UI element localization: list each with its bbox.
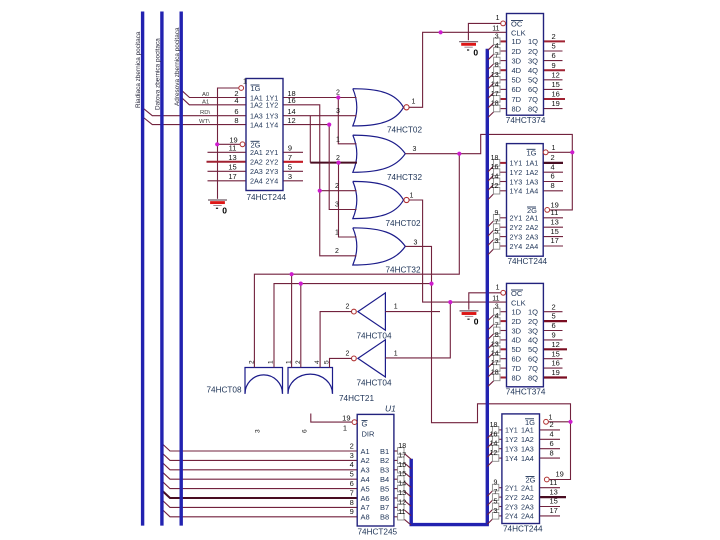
svg-text:4: 4 [495, 313, 499, 320]
junction CLK2 net [448, 300, 452, 304]
nor-gate U2A 74HCT02 [353, 89, 404, 126]
svg-text:2Y1: 2Y1 [505, 484, 518, 493]
wire U1 B4 stub and bus tap [394, 478, 398, 480]
wire U10 A pin stub row 4 [540, 457, 561, 459]
svg-text:12: 12 [552, 340, 560, 349]
svg-text:1A2: 1A2 [250, 101, 263, 110]
wire U1 B8 stub and bus tap [394, 516, 398, 518]
svg-text:5: 5 [552, 42, 556, 51]
svg-text:3: 3 [493, 508, 497, 515]
svg-text:2Q: 2Q [528, 47, 538, 56]
svg-text:19: 19 [552, 99, 560, 108]
svg-text:8: 8 [495, 332, 499, 339]
svg-text:5: 5 [493, 499, 497, 506]
wire U5 pin9 stub [283, 151, 303, 153]
svg-text:3: 3 [414, 240, 418, 247]
svg-text:3: 3 [336, 108, 340, 115]
wire U1 B7 stub and bus tap [394, 506, 398, 508]
svg-text:7: 7 [288, 153, 292, 162]
wire U8 6Q stub [543, 358, 562, 360]
junction U10 enable net [568, 420, 572, 424]
wire data bit D2: bus2 tap to U1 pin A3 [162, 462, 357, 469]
svg-text:2A4: 2A4 [250, 177, 263, 186]
inverter U4B 74HCT04 body [358, 340, 386, 377]
svg-text:7: 7 [350, 488, 354, 497]
wire U7 Y pin stub and bus tap row 7 [500, 236, 507, 238]
svg-text:6: 6 [350, 479, 354, 488]
svg-text:13: 13 [491, 341, 499, 348]
wire U10 Y pin stub and bus tap row 6 [499, 496, 502, 498]
wire U6 7Q stub [544, 98, 566, 100]
junction CLK1 net [439, 30, 443, 34]
wire U8 2Q stub [543, 320, 567, 322]
svg-text:2Q: 2Q [528, 317, 538, 326]
wire U5.1Y1(A0) to U2A NOR input 2, branch to U3A input 1 [283, 97, 357, 99]
svg-text:2A2: 2A2 [521, 493, 534, 502]
svg-text:1Y4: 1Y4 [510, 187, 523, 196]
svg-text:4Q: 4Q [528, 336, 538, 345]
svg-text:8Q: 8Q [528, 104, 538, 113]
svg-text:13: 13 [228, 153, 236, 162]
svg-text:2: 2 [551, 153, 555, 162]
wire U5 pin15 stub [208, 170, 248, 172]
svg-text:B4: B4 [380, 475, 389, 484]
svg-text:3: 3 [495, 304, 499, 311]
svg-text:2Y2: 2Y2 [505, 493, 518, 502]
wire data bit D0: bus2 tap to U1 pin A1 [162, 444, 357, 451]
svg-text:1Y3: 1Y3 [505, 445, 518, 454]
U5 pin19 bubble [240, 142, 245, 147]
wire U3A OR output to U7 74HCT244 1G/2G enables [406, 134, 573, 210]
U1 pin19 bubble [352, 420, 357, 425]
U8 pin1 bubble [501, 290, 506, 295]
wire U8 OC pin1 to ground [469, 293, 501, 310]
wire U5 pin7 stub [283, 161, 303, 163]
svg-text:74HCT04: 74HCT04 [357, 379, 392, 388]
wire data bit D3: bus2 tap to U1 pin A4 [162, 472, 357, 479]
junction RD net at U3A input [336, 161, 340, 165]
wire data bit D4: bus2 tap to U1 pin A5 [162, 481, 357, 488]
register U8 74HCT374 [507, 283, 544, 386]
svg-text:1Q: 1Q [528, 37, 538, 46]
svg-text:1D: 1D [512, 308, 522, 317]
wire U7 Y pin stub and bus tap row 5 [500, 217, 507, 219]
svg-text:B2: B2 [380, 456, 389, 465]
wire U10 Y pin stub and bus tap row 8 [499, 515, 502, 517]
svg-text:7Q: 7Q [528, 95, 538, 104]
svg-text:5: 5 [494, 229, 498, 236]
U7 pin1 bubble [543, 150, 548, 155]
svg-text:1: 1 [343, 424, 347, 433]
svg-text:2: 2 [335, 183, 339, 190]
wire data bit D7: bus2 tap to U1 pin A8 [162, 509, 357, 516]
svg-text:2Y1: 2Y1 [510, 214, 523, 223]
svg-text:2D: 2D [512, 47, 522, 56]
U6 net label boxes [494, 38, 500, 45]
U10 net label boxes [492, 427, 498, 434]
svg-text:9: 9 [288, 144, 292, 153]
svg-text:74HCT08: 74HCT08 [207, 385, 242, 394]
svg-text:2A1: 2A1 [250, 148, 263, 157]
svg-text:74HCT04: 74HCT04 [357, 332, 392, 341]
ground at U6 OC [459, 42, 478, 58]
wire WT net: bus1 tap to U5 pin8 [143, 117, 247, 125]
svg-text:2: 2 [346, 350, 350, 357]
svg-text:16: 16 [491, 164, 499, 171]
svg-text:B3: B3 [380, 466, 389, 475]
wire U1 B5 stub and bus tap [394, 488, 398, 490]
svg-text:16: 16 [552, 359, 560, 368]
svg-text:4: 4 [495, 43, 499, 50]
svg-text:0: 0 [473, 47, 478, 57]
svg-text:11: 11 [492, 26, 499, 33]
svg-text:1: 1 [412, 99, 416, 106]
svg-text:13: 13 [551, 217, 559, 226]
svg-text:1A3: 1A3 [521, 445, 534, 454]
wire U7 Y pin stub and bus tap row 8 [500, 245, 507, 247]
svg-text:3: 3 [335, 202, 339, 209]
buffer U5 74HCT244 [246, 79, 283, 191]
wire U10 Y pin stub and bus tap row 7 [499, 506, 502, 508]
svg-text:2A1: 2A1 [526, 214, 539, 223]
svg-text:2Y3: 2Y3 [505, 502, 518, 511]
svg-text:5: 5 [350, 470, 354, 479]
svg-text:6: 6 [552, 51, 556, 60]
wire U6 7D stub and bus tap [501, 98, 507, 100]
or-gate U3B 74HCT32 [353, 228, 406, 265]
svg-text:1Y1: 1Y1 [510, 159, 523, 168]
wire U7 A pin stub row 2 [543, 171, 563, 173]
svg-text:2Y4: 2Y4 [505, 512, 518, 521]
svg-text:DIR: DIR [362, 429, 376, 438]
wire U8 4D stub and bus tap [501, 339, 507, 341]
svg-text:17: 17 [228, 172, 236, 181]
svg-text:4: 4 [550, 430, 554, 439]
svg-text:A7: A7 [361, 503, 370, 512]
svg-text:Datova zbernica pocitaca: Datova zbernica pocitaca [155, 38, 162, 110]
svg-text:1: 1 [394, 304, 398, 311]
wire U7 A pin stub row 6 [543, 226, 563, 228]
wire U6 8D stub and bus tap [501, 108, 507, 110]
svg-text:12: 12 [491, 183, 499, 190]
svg-text:12: 12 [490, 450, 498, 457]
svg-text:19: 19 [342, 414, 350, 423]
U6 pin1 bubble [501, 21, 506, 26]
svg-text:1Q: 1Q [528, 308, 538, 317]
svg-text:14: 14 [398, 481, 406, 488]
svg-text:6: 6 [552, 321, 556, 330]
svg-text:7D: 7D [512, 95, 522, 104]
svg-text:1D: 1D [512, 37, 522, 46]
or-gate U3A 74HCT32 [353, 135, 406, 172]
svg-text:5D: 5D [512, 76, 522, 85]
wire U7 A pin stub row 8 [543, 245, 563, 247]
wire U7 A pin stub row 1 [543, 162, 563, 164]
svg-text:1Y2: 1Y2 [505, 435, 518, 444]
svg-text:13: 13 [491, 72, 499, 79]
wire U5 1G/2G enables to ground [218, 88, 241, 144]
svg-text:74HCT244: 74HCT244 [247, 193, 287, 202]
svg-text:8: 8 [495, 62, 499, 69]
svg-text:1A2: 1A2 [526, 168, 539, 177]
svg-text:11: 11 [492, 295, 499, 302]
svg-text:74HCT244: 74HCT244 [508, 257, 548, 266]
wire U10 A pin stub row 3 [540, 448, 561, 450]
svg-text:74HCT374: 74HCT374 [506, 116, 546, 125]
svg-text:5Q: 5Q [528, 345, 538, 354]
svg-text:3Q: 3Q [528, 326, 538, 335]
svg-text:3: 3 [350, 451, 354, 460]
svg-text:2: 2 [350, 441, 354, 450]
wire U9B AND output to U1 74HCT245 G enable [311, 414, 352, 423]
svg-text:6: 6 [302, 429, 309, 433]
wire U8 8D stub and bus tap [501, 377, 507, 379]
svg-text:7: 7 [495, 53, 499, 60]
wire U7 Y pin stub and bus tap row 4 [500, 190, 507, 192]
svg-text:11: 11 [550, 478, 558, 487]
svg-text:5Q: 5Q [528, 76, 538, 85]
svg-text:16: 16 [398, 462, 406, 469]
svg-text:2Y2: 2Y2 [510, 223, 523, 232]
svg-text:2D: 2D [512, 317, 522, 326]
wire U1 B3 stub and bus tap [394, 469, 398, 471]
wire U6 5D stub and bus tap [501, 79, 507, 81]
svg-text:8: 8 [550, 448, 554, 457]
svg-text:RD\: RD\ [200, 110, 211, 116]
wire U8 3D stub and bus tap [501, 330, 507, 332]
svg-text:1Y3: 1Y3 [266, 112, 279, 121]
svg-text:1Y4: 1Y4 [266, 120, 279, 129]
svg-text:1A1: 1A1 [526, 159, 539, 168]
wire U6 6D stub and bus tap [501, 88, 507, 90]
wire U7 Y pin stub and bus tap row 1 [500, 162, 507, 164]
wire U5 pin13 stub [207, 161, 248, 163]
svg-text:2Y3: 2Y3 [510, 232, 523, 241]
svg-text:3: 3 [495, 33, 499, 40]
svg-text:B8: B8 [380, 513, 389, 522]
svg-text:0: 0 [222, 206, 227, 216]
U10 pin19 bubble [544, 477, 549, 482]
svg-text:1: 1 [286, 360, 293, 364]
U5 pin1 bubble [239, 86, 244, 91]
svg-text:15: 15 [228, 163, 236, 172]
svg-text:6: 6 [234, 107, 238, 116]
svg-text:1A3: 1A3 [526, 177, 539, 186]
svg-text:B6: B6 [380, 494, 389, 503]
wire U10 A pin stub row 8 [540, 515, 561, 517]
wire U10 Y pin stub and bus tap row 3 [499, 448, 502, 450]
wire U8 1D stub and bus tap [501, 311, 507, 313]
svg-text:4: 4 [350, 460, 354, 469]
svg-text:15: 15 [552, 349, 560, 358]
svg-text:18: 18 [491, 155, 499, 162]
U10 pin1 bubble [544, 419, 549, 424]
svg-text:1Y1: 1Y1 [505, 426, 518, 435]
svg-text:7: 7 [493, 489, 497, 496]
svg-text:14: 14 [490, 441, 498, 448]
svg-text:9: 9 [552, 61, 556, 70]
U7 net label boxes [493, 160, 499, 167]
svg-text:14: 14 [287, 107, 295, 116]
svg-text:16: 16 [490, 431, 498, 438]
wire U6 2D stub and bus tap [501, 50, 507, 52]
ground at U8 OC [460, 311, 479, 327]
svg-text:15: 15 [551, 227, 559, 236]
wire U10 Y pin stub and bus tap row 4 [499, 457, 502, 459]
junction A1 net at U2B input [318, 189, 322, 193]
svg-text:1Y2: 1Y2 [266, 101, 279, 110]
wire U10 A pin stub row 1 [540, 429, 561, 431]
svg-text:2Y4: 2Y4 [266, 177, 279, 186]
wire U10 A pin stub row 2 [540, 438, 561, 440]
svg-text:2A3: 2A3 [526, 232, 539, 241]
svg-text:3: 3 [255, 429, 262, 433]
svg-text:19: 19 [552, 368, 560, 377]
svg-text:4Q: 4Q [528, 66, 538, 75]
svg-text:2: 2 [346, 304, 350, 311]
wire U1 B6 stub and bus tap [394, 497, 398, 499]
svg-text:2: 2 [335, 248, 339, 255]
wire U2B NOR output to U8 74HCT374 CLK pin 11 [409, 200, 507, 302]
wire U8 5D stub and bus tap [501, 348, 507, 350]
svg-text:A5: A5 [361, 484, 370, 493]
wire U10 Y pin stub and bus tap row 5 [499, 487, 502, 489]
wire U6 3D stub and bus tap [501, 60, 507, 62]
wire branch RD to U3A OR input 2 [309, 116, 311, 163]
U7 pin19 bubble [545, 208, 550, 213]
wire U8 4Q stub [543, 339, 562, 341]
svg-text:19: 19 [556, 469, 564, 478]
svg-text:1A3: 1A3 [250, 112, 263, 121]
svg-text:1Y3: 1Y3 [510, 177, 523, 186]
transceiver U1 74HCT245 [357, 414, 394, 526]
wire U6 8Q stub [544, 108, 563, 110]
svg-text:15: 15 [552, 80, 560, 89]
svg-text:13: 13 [398, 490, 406, 497]
wire U7 A pin stub row 4 [543, 190, 563, 192]
ground below U5 [208, 200, 227, 216]
svg-text:6D: 6D [512, 355, 522, 364]
wire U6 2Q stub [544, 50, 563, 52]
svg-text:6: 6 [550, 439, 554, 448]
svg-text:2: 2 [550, 420, 554, 429]
wire U10 Y pin stub and bus tap row 1 [499, 429, 502, 431]
svg-text:2Y2: 2Y2 [266, 158, 279, 167]
wire U8 7D stub and bus tap [501, 367, 507, 369]
wire data bit D6: bus2 tap to U1 pin A7 [162, 500, 357, 507]
wire U3A output branch down to AND gates inputs [254, 154, 459, 368]
svg-text:17: 17 [551, 236, 559, 245]
svg-text:4D: 4D [512, 336, 522, 345]
svg-text:1: 1 [268, 360, 275, 364]
svg-text:2: 2 [552, 302, 556, 311]
wire U4B inverter input [330, 358, 352, 367]
svg-text:2: 2 [249, 360, 256, 364]
svg-text:2Y3: 2Y3 [266, 167, 279, 176]
svg-text:1A4: 1A4 [521, 454, 534, 463]
svg-text:5: 5 [324, 360, 331, 364]
wire U6 5Q stub [544, 79, 563, 81]
svg-text:CLK: CLK [511, 298, 526, 307]
svg-text:A2: A2 [361, 456, 370, 465]
wire U6 3Q stub [544, 60, 563, 62]
svg-text:1: 1 [335, 229, 339, 236]
wire data bit D1: bus2 tap to U1 pin A2 [162, 453, 357, 460]
wire U10 A pin stub row 6 [540, 496, 567, 498]
svg-text:B1: B1 [380, 447, 389, 456]
svg-text:A1: A1 [202, 99, 209, 105]
svg-text:8: 8 [551, 181, 555, 190]
wire U8 7Q stub [543, 367, 562, 369]
svg-text:74HCT32: 74HCT32 [387, 173, 422, 182]
svg-text:1A2: 1A2 [521, 435, 534, 444]
svg-text:2: 2 [295, 360, 302, 364]
svg-text:A0: A0 [202, 92, 210, 98]
svg-text:12: 12 [398, 499, 406, 506]
svg-text:2A3: 2A3 [250, 167, 263, 176]
svg-text:8: 8 [350, 498, 354, 507]
svg-text:8D: 8D [512, 373, 522, 382]
svg-text:15: 15 [398, 471, 406, 478]
svg-text:4D: 4D [512, 66, 522, 75]
junction U3A output net [457, 152, 461, 156]
svg-text:8D: 8D [512, 104, 522, 113]
svg-text:11: 11 [398, 509, 405, 516]
svg-text:3D: 3D [512, 326, 522, 335]
wire RD net: bus1 tap to U5 pin6 [143, 108, 247, 116]
wire U8 8Q stub [543, 376, 567, 378]
svg-text:12: 12 [287, 116, 295, 125]
svg-text:3: 3 [288, 172, 292, 181]
svg-text:WT\: WT\ [199, 119, 210, 125]
svg-text:74HCT21: 74HCT21 [339, 394, 374, 403]
junction U7 enable net [570, 150, 574, 154]
wire U2A NOR output to U6 74HCT374 CLK pin 11 [409, 32, 507, 107]
svg-text:18: 18 [490, 422, 498, 429]
svg-text:9: 9 [350, 507, 354, 516]
svg-text:14: 14 [491, 351, 499, 358]
junction A0 net [336, 95, 340, 99]
svg-text:A8: A8 [361, 513, 370, 522]
svg-text:74HCT244: 74HCT244 [503, 525, 543, 534]
wire U6 4Q stub [544, 69, 566, 71]
and-gate U9B 74HCT21 body (pointing down) [288, 368, 333, 394]
wire U7 A pin stub row 5 [543, 217, 563, 219]
svg-text:74HCT02: 74HCT02 [386, 219, 421, 228]
wire branch to U9B AND input [291, 274, 293, 367]
bus internal data (right vertical) [486, 49, 489, 525]
svg-text:A3: A3 [361, 466, 370, 475]
buffer U7 74HCT244 [507, 144, 544, 257]
junction U3B out branch [299, 282, 303, 286]
bus 74HCT245 B-side, joining bottom [411, 459, 489, 525]
buffer U10 74HCT244 [502, 414, 540, 524]
svg-text:4: 4 [234, 96, 238, 105]
wire U10 A pin stub row 5 [540, 487, 561, 489]
svg-text:17: 17 [491, 360, 499, 367]
inverter U4A 74HCT04 body [358, 293, 386, 330]
svg-text:74HCT32: 74HCT32 [386, 266, 421, 275]
wire U10 Y pin stub and bus tap row 2 [499, 438, 502, 440]
wire U3B OR output down and around to U10 74HCT244 1G/2G [406, 246, 571, 479]
svg-text:1: 1 [410, 192, 414, 199]
wire U8 6D stub and bus tap [501, 358, 507, 360]
wire U7 Y pin stub and bus tap row 2 [500, 171, 507, 173]
svg-text:18: 18 [398, 443, 406, 450]
svg-text:1: 1 [552, 145, 556, 152]
wire U1 B1 stub and bus tap [394, 450, 398, 452]
wire U1 B2 stub and bus tap [394, 459, 398, 461]
